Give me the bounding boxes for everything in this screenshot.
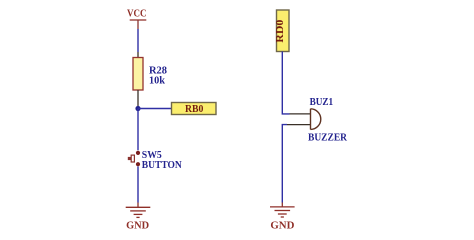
terminal RB0 [172, 103, 217, 115]
power VCC [127, 9, 147, 29]
wire VCC to R28 [137, 29, 139, 52]
svg-text:10k: 10k [149, 76, 165, 87]
resistor R28 [133, 52, 143, 106]
ground right [270, 203, 295, 232]
svg-text:BUTTON: BUTTON [142, 160, 183, 171]
svg-text:VCC: VCC [127, 9, 147, 20]
switch SW5 [128, 151, 140, 167]
wire junction to RB0 [138, 108, 172, 110]
wire RD0 to BUZ1 top [282, 52, 289, 114]
wire SW5 to GND [137, 166, 139, 202]
svg-text:BUZ1: BUZ1 [310, 97, 334, 108]
ground left [126, 203, 151, 232]
svg-text:RB0: RB0 [185, 104, 203, 115]
svg-text:BUZZER: BUZZER [308, 133, 348, 144]
svg-text:RD0: RD0 [275, 20, 286, 43]
svg-text:GND: GND [126, 220, 149, 231]
terminal RD0 [275, 10, 289, 52]
wire junction to SW5 [137, 109, 139, 151]
junction node [135, 106, 140, 111]
buzzer BUZ1 [287, 109, 321, 130]
svg-text:GND: GND [270, 220, 294, 231]
wire BUZ1 bottom to GND [282, 125, 287, 203]
